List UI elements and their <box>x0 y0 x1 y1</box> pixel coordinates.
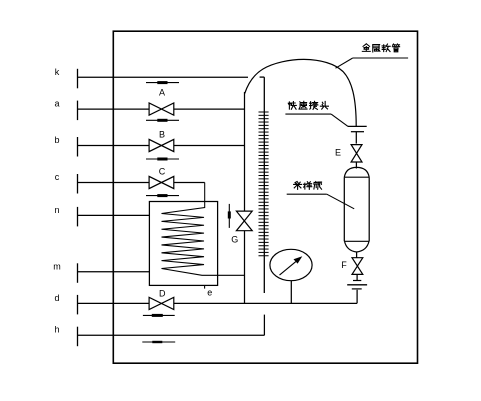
svg-text:e: e <box>207 288 212 298</box>
svg-text:h: h <box>54 325 59 335</box>
svg-text:E: E <box>335 148 341 158</box>
svg-text:a: a <box>54 99 59 109</box>
svg-text:F: F <box>341 260 347 270</box>
svg-text:D: D <box>159 288 166 298</box>
svg-text:m: m <box>53 261 61 271</box>
svg-text:A: A <box>159 88 165 98</box>
svg-text:b: b <box>54 135 59 145</box>
svg-text:k: k <box>55 67 60 77</box>
svg-text:C: C <box>159 167 166 177</box>
svg-text:n: n <box>54 205 59 215</box>
svg-text:B: B <box>159 130 165 140</box>
svg-text:c: c <box>55 172 60 182</box>
svg-text:G: G <box>231 235 238 245</box>
svg-text:d: d <box>54 293 59 303</box>
